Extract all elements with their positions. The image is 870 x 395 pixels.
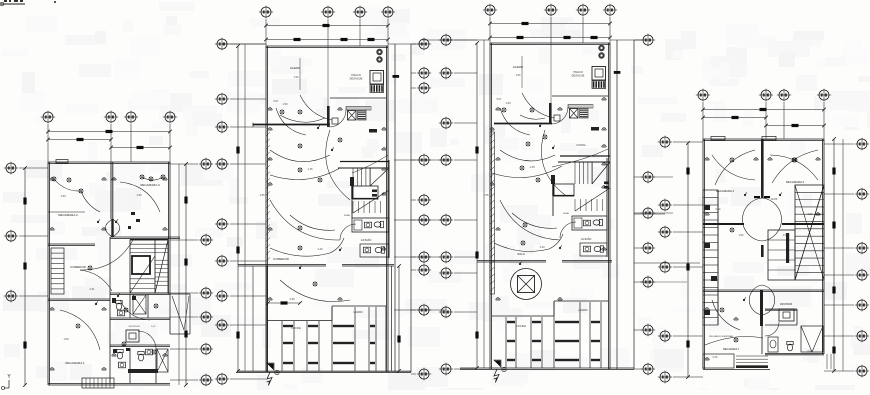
- svg-text:CLOS: CLOS: [771, 198, 778, 201]
- svg-text:RECAMARA 2: RECAMARA 2: [716, 189, 734, 193]
- svg-text:1.20: 1.20: [317, 247, 323, 251]
- svg-text:LAVADO: LAVADO: [578, 309, 587, 312]
- svg-text:SUBE: SUBE: [563, 213, 569, 215]
- svg-text:1.20: 1.20: [539, 245, 545, 249]
- svg-text:2.35: 2.35: [289, 297, 295, 301]
- svg-text:DESAGUE: DESAGUE: [350, 77, 363, 81]
- svg-text:SUBE: SUBE: [344, 215, 350, 217]
- svg-text:1.50: 1.50: [63, 337, 69, 341]
- svg-text:RECAMARA 1: RECAMARA 1: [723, 348, 740, 351]
- svg-text:TINACO: TINACO: [573, 70, 583, 74]
- svg-text:RECAMARA 1: RECAMARA 1: [65, 361, 85, 365]
- svg-text:ALERO: ALERO: [290, 66, 301, 70]
- svg-text:VESTIDOR: VESTIDOR: [128, 326, 140, 328]
- svg-text:1/2 BAÑO: 1/2 BAÑO: [361, 239, 372, 242]
- svg-text:5.07: 5.07: [497, 98, 502, 101]
- svg-text:RECAMARA 3: RECAMARA 3: [786, 180, 804, 184]
- svg-text:1/2 BAÑO: 1/2 BAÑO: [581, 238, 592, 241]
- svg-text:COMEDOR: COMEDOR: [70, 265, 87, 269]
- svg-text:ALERO: ALERO: [513, 65, 524, 69]
- svg-text:1.50: 1.50: [294, 76, 299, 79]
- svg-text:RECAMARA 2: RECAMARA 2: [58, 213, 78, 217]
- svg-text:LAVADO: LAVADO: [353, 311, 362, 314]
- svg-text:VESTIDOR: VESTIDOR: [780, 303, 792, 306]
- svg-text:0.30: 0.30: [716, 208, 721, 211]
- svg-text:2.31: 2.31: [89, 287, 95, 291]
- svg-text:1.55: 1.55: [483, 193, 489, 197]
- svg-text:1.50: 1.50: [136, 193, 142, 197]
- svg-text:1.50: 1.50: [516, 74, 521, 77]
- svg-text:1.45: 1.45: [307, 167, 313, 171]
- svg-text:COCINA: COCINA: [516, 324, 526, 328]
- svg-text:RECAMARA 3: RECAMARA 3: [140, 183, 160, 187]
- svg-text:1.50: 1.50: [505, 101, 511, 105]
- svg-text:0.30: 0.30: [713, 356, 718, 359]
- svg-text:1.50: 1.50: [783, 234, 788, 237]
- svg-text:1.45: 1.45: [529, 165, 535, 169]
- svg-text:0.40: 0.40: [808, 350, 813, 353]
- svg-text:DESAGUE: DESAGUE: [572, 74, 585, 78]
- svg-text:COCINA: COCINA: [576, 144, 586, 147]
- svg-text:PROHIBICION ENTRAR: PROHIBICION ENTRAR: [709, 335, 733, 338]
- svg-text:0.30: 0.30: [808, 213, 813, 216]
- svg-text:1.50: 1.50: [282, 102, 288, 106]
- svg-text:1.55: 1.55: [259, 193, 265, 197]
- svg-text:TINACO: TINACO: [351, 73, 361, 77]
- svg-text:1.50: 1.50: [60, 194, 66, 198]
- svg-text:1.50: 1.50: [739, 234, 744, 237]
- svg-text:5.07: 5.07: [274, 100, 279, 103]
- svg-text:SALA: SALA: [517, 252, 525, 256]
- svg-text:COMEDOR: COMEDOR: [273, 257, 290, 261]
- svg-text:COCINA: COCINA: [291, 326, 301, 330]
